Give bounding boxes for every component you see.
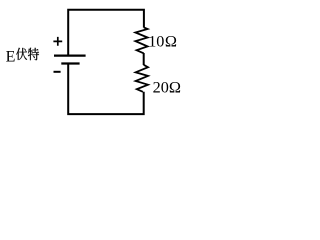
minus sign xyxy=(54,71,61,73)
resistor R2 zigzag xyxy=(136,65,148,92)
wire between resistors xyxy=(143,53,145,65)
label hanzi 特 xyxy=(28,48,39,61)
label hanzi 伏 xyxy=(16,48,27,60)
wire top-left loop: left wire upper + top wire + right wire upper xyxy=(68,10,144,56)
svg-text:10: 10 xyxy=(148,32,164,50)
svg-text:E: E xyxy=(6,49,16,66)
resistor R1 zigzag xyxy=(135,27,147,53)
svg-text:Ω: Ω xyxy=(165,32,177,51)
battery E positive plate (long) xyxy=(54,54,86,56)
plus sign xyxy=(53,37,62,46)
wire bottom loop: left wire lower + bottom wire + right wire lower xyxy=(68,64,144,115)
svg-text:20: 20 xyxy=(153,78,169,96)
svg-text:Ω: Ω xyxy=(169,77,181,96)
battery E negative plate (short) xyxy=(61,62,79,64)
